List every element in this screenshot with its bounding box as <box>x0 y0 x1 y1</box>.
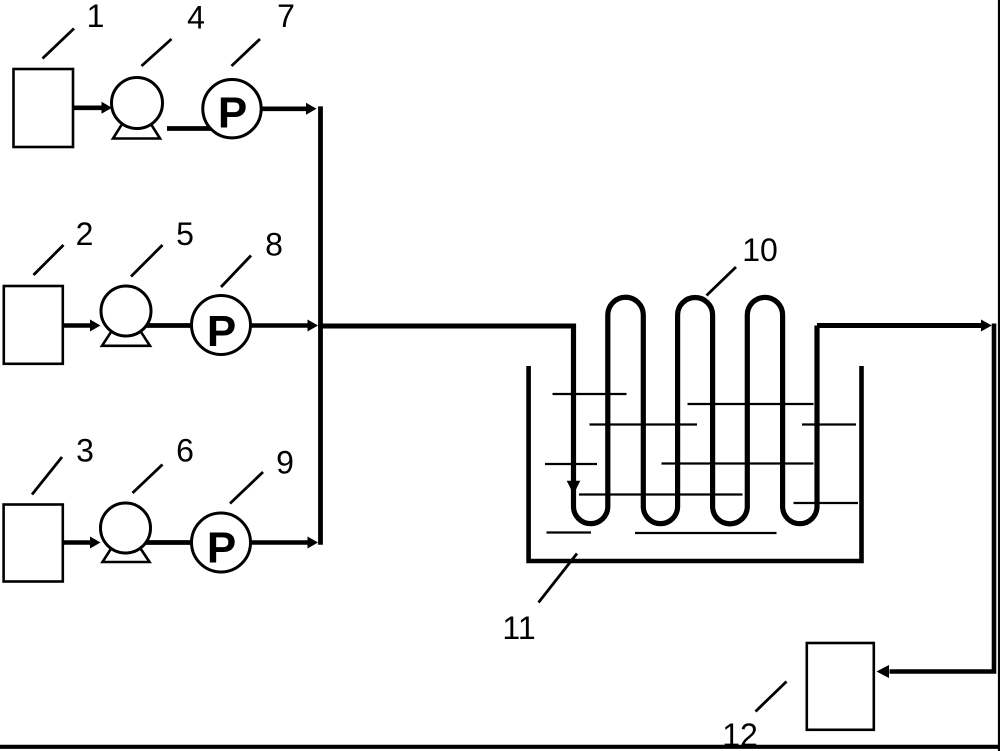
bottom border line <box>0 745 1000 749</box>
liquid level line c <box>590 423 698 425</box>
svg-text:10: 10 <box>742 232 778 268</box>
pump 6 <box>101 503 151 562</box>
leader line 7 <box>232 39 261 66</box>
svg-text:7: 7 <box>277 0 295 34</box>
wire: main feed line from junction to coil inlet <box>318 324 574 329</box>
svg-text:P: P <box>207 307 236 356</box>
arrow gauge8 to junction <box>251 323 308 328</box>
liquid level line i <box>547 531 592 533</box>
svg-text:5: 5 <box>176 216 194 252</box>
collector 12 <box>807 643 874 730</box>
pump 5 <box>101 286 151 346</box>
liquid level line h <box>794 502 859 504</box>
leader line 2 <box>34 245 64 275</box>
liquid level line g <box>579 493 743 495</box>
bath 11 (container walls) <box>529 366 862 561</box>
svg-text:4: 4 <box>187 0 205 36</box>
arrow tank2 to pump5 <box>63 323 91 328</box>
pressure gauge 7 <box>203 80 261 138</box>
arrow tank1 to pump4 <box>74 106 103 111</box>
coil 10 (serpentine reactor coil) <box>574 297 818 524</box>
svg-text:8: 8 <box>265 227 283 263</box>
arrowhead: flow direction down inside coil inlet <box>567 481 581 495</box>
leader line 4 <box>142 39 172 66</box>
leader line 3 <box>32 457 62 495</box>
svg-text:P: P <box>218 89 247 138</box>
connector pump4 to gauge7 <box>167 126 232 131</box>
connector pump5 to gauge8 <box>126 323 221 328</box>
arrow gauge9 to junction <box>251 540 308 545</box>
svg-text:P: P <box>207 524 236 573</box>
liquid level line e <box>545 463 597 465</box>
svg-text:1: 1 <box>87 0 105 34</box>
liquid level line b <box>688 403 814 405</box>
svg-text:2: 2 <box>76 216 94 252</box>
liquid level line a <box>553 393 627 395</box>
liquid level line j <box>635 532 777 534</box>
arrowhead: outlet into right down-pipe <box>981 320 992 332</box>
leader line 6 <box>133 465 163 494</box>
tank 2 <box>4 286 63 364</box>
wire: coil outlet to right <box>817 323 982 328</box>
pressure gauge 9 <box>192 513 251 573</box>
pressure gauge 8 <box>192 296 251 357</box>
wire: right vertical down-pipe <box>890 324 995 672</box>
leader line 10 <box>707 267 737 296</box>
leader line 11 <box>539 554 578 603</box>
arrowhead: into collector 12 <box>877 665 890 678</box>
right border line <box>998 0 1000 751</box>
pump 4 <box>112 78 163 139</box>
liquid level line f <box>662 462 814 464</box>
leader line 9 <box>230 472 263 504</box>
liquid level line d <box>802 423 856 425</box>
leader line 12 <box>756 682 787 712</box>
arrow gauge7 to junction <box>262 107 307 112</box>
svg-text:9: 9 <box>276 445 294 481</box>
tank 3 <box>4 505 63 582</box>
svg-text:11: 11 <box>502 610 535 646</box>
leader line 5 <box>131 245 163 277</box>
leader line 8 <box>221 256 251 288</box>
svg-text:6: 6 <box>176 433 194 469</box>
wire: junction vertical manifold <box>318 106 323 544</box>
arrow tank3 to pump6 <box>63 540 91 545</box>
svg-text:3: 3 <box>76 433 94 469</box>
leader line 1 <box>43 29 75 59</box>
tank 1 <box>14 69 74 147</box>
connector pump6 to gauge9 <box>126 540 222 545</box>
